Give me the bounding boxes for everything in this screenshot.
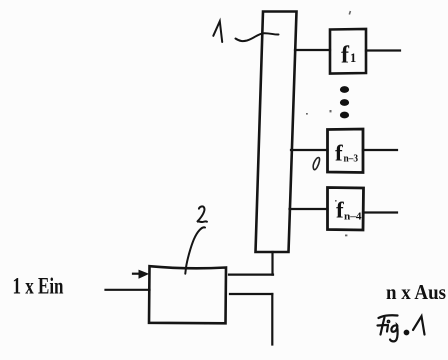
svg-text:f: f — [341, 43, 350, 69]
svg-text:f: f — [336, 198, 344, 223]
svg-text:n–4: n–4 — [344, 211, 362, 223]
svg-text:1 x Ein: 1 x Ein — [13, 274, 64, 299]
svg-text:1: 1 — [350, 51, 356, 65]
svg-text:n–3: n–3 — [344, 154, 359, 165]
svg-text:n x Aus: n x Aus — [386, 280, 446, 304]
svg-text:f: f — [335, 141, 343, 166]
